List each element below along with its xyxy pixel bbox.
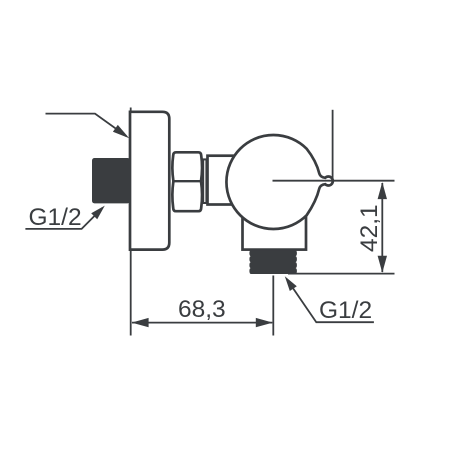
svg-text:G1/2: G1/2 xyxy=(29,204,82,231)
threaded outlet G1/2 (solid, ribbed) xyxy=(249,250,297,274)
bottom extension line xyxy=(288,273,395,275)
svg-text:G1/2: G1/2 xyxy=(319,297,372,324)
leader arrow to flange xyxy=(113,125,129,138)
leader to flange xyxy=(46,114,127,137)
svg-text:42,1: 42,1 xyxy=(356,204,383,252)
outlet body block xyxy=(243,208,307,250)
arrow right 68,3 xyxy=(256,318,273,327)
spout tip vertical extension line xyxy=(332,110,334,183)
dimension line 42,1 xyxy=(381,183,383,272)
hex nut xyxy=(172,152,202,211)
leader from G1/2 inlet xyxy=(25,208,102,229)
extension line below outlet xyxy=(272,276,274,336)
leader arrow to nipple xyxy=(91,206,105,220)
arrow up 42,1 xyxy=(378,182,387,199)
hex nut facet line xyxy=(173,180,201,182)
svg-text:68,3: 68,3 xyxy=(178,296,226,323)
dimension line 68,3 xyxy=(132,322,272,324)
arrow down 42,1 xyxy=(378,256,387,273)
wall flange xyxy=(130,112,169,250)
connector block xyxy=(208,156,240,205)
leader from G1/2 outlet xyxy=(287,279,374,322)
inlet nipple G1/2 (solid) xyxy=(92,158,130,203)
valve ball body with spout xyxy=(226,135,332,229)
leader arrow to outlet xyxy=(285,276,297,291)
centre line through ball xyxy=(273,180,395,182)
washer xyxy=(203,159,206,203)
wall extension line xyxy=(130,108,132,336)
arrow left 68,3 xyxy=(132,318,149,327)
